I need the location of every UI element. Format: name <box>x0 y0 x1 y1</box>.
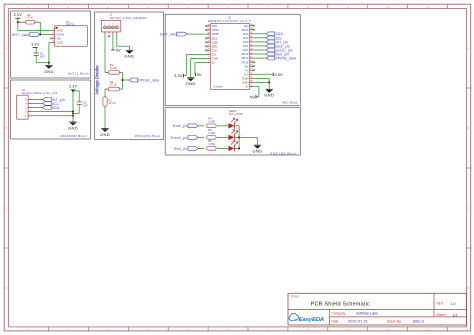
wire Blue_pin to R4 <box>198 125 204 127</box>
wire U1 to Blue_pin <box>253 45 266 47</box>
power flag 3.3V (top left) <box>13 13 22 18</box>
svg-text:EasyEDA: EasyEDA <box>299 317 325 323</box>
svg-text:Voltage Divider: Voltage Divider <box>95 65 100 95</box>
svg-text:Green_pin: Green_pin <box>170 136 188 140</box>
block name PPD42NS Block <box>135 134 161 138</box>
wire U1 to INT_pin <box>253 41 266 43</box>
net flag SDA (MCU) <box>266 32 283 36</box>
wire C1 to ground rail <box>36 56 49 63</box>
wire pin1 to ground rail <box>31 115 73 117</box>
wire junction to C2 <box>73 91 79 102</box>
ground (RGB LED block) <box>252 145 262 153</box>
led LED1 element Red_pin <box>225 141 237 152</box>
net flag INT_pin (MCU) <box>266 40 288 44</box>
wire 3.3V down to VDD rail <box>18 22 52 30</box>
wire 3.3V down <box>72 90 74 112</box>
pin number 1 common <box>241 135 243 137</box>
wire R6 to LED <box>217 147 228 149</box>
net flag Green_pin (MCU) <box>266 48 293 52</box>
svg-text:1uF: 1uF <box>40 55 45 59</box>
wire R3 to ground <box>104 106 106 128</box>
svg-text:3.3V: 3.3V <box>69 85 78 89</box>
svg-text:8 shure: 8 shure <box>214 84 223 88</box>
svg-text:3.3V: 3.3V <box>13 13 22 17</box>
wire U1 5v to 5V flag (left) <box>195 62 207 74</box>
node junction DATA <box>39 33 41 35</box>
wire U1 to Red_pin <box>253 53 266 55</box>
ic U1 WEMOS LOLIN32 V1.0.0 <box>207 15 254 89</box>
node junction PPD42 divider <box>121 79 123 81</box>
wire J1 pin1 down to R1 <box>104 34 106 73</box>
svg-text:PPD42NS Block: PPD42NS Block <box>135 134 161 138</box>
net flag SCL (MCU) <box>266 36 282 40</box>
ground (MCU right) <box>264 89 274 97</box>
wire R2 to DATA line <box>39 22 41 34</box>
net flag PPD42_data <box>129 78 159 82</box>
drawn by field <box>387 319 424 323</box>
node junction pin1 <box>72 115 74 117</box>
svg-text:GND: GND <box>100 132 110 137</box>
wire U1 5v to 5V flag (right) <box>253 86 259 96</box>
wire 3.3V to C1 <box>35 48 37 53</box>
node junction C2 top <box>72 90 74 92</box>
node junction 3.3V rail <box>17 21 19 23</box>
no-connect marks U1 right pins <box>253 25 255 72</box>
svg-text:dotMote Labs: dotMote Labs <box>356 312 378 316</box>
power flag 3.3V (APDS) <box>69 85 78 90</box>
power flag 5V (MCU left) <box>195 72 202 77</box>
wire U1 3v3 to 3.3V flag <box>183 54 206 75</box>
wire pin2 to 3.3V rail <box>31 111 73 113</box>
block name DHT11 Block <box>68 71 89 75</box>
node junction common cathode mid <box>238 136 240 138</box>
svg-text:Isfan G: Isfan G <box>413 320 425 324</box>
svg-text:RGB LED Block: RGB LED Block <box>270 151 296 155</box>
wire U2 GND down <box>49 42 52 62</box>
svg-text:Drawn By:: Drawn By: <box>387 319 402 323</box>
svg-text:Date:: Date: <box>332 319 340 323</box>
net flag Green_pin <box>170 136 198 140</box>
wire C2 bottom <box>72 104 79 114</box>
svg-text:GND: GND <box>264 93 274 98</box>
resistor R5 1.05K <box>207 128 216 139</box>
wire down to ground <box>72 112 74 122</box>
wire R1 to R2 <box>121 72 123 89</box>
wire junction to flag <box>122 79 129 81</box>
svg-text:GND: GND <box>68 125 78 130</box>
ground (DHT11 block) <box>44 65 54 73</box>
power flag 3.3V (MCU right) <box>273 72 283 77</box>
net flag DHT_data (MCU) <box>160 32 187 36</box>
net flag INT_pin <box>43 98 65 102</box>
svg-text:10: 10 <box>386 5 390 9</box>
no-connect mark J1 pin2 <box>108 35 110 37</box>
company field <box>332 311 378 315</box>
connector J2 Header-Male-2.54_1x5 <box>17 88 58 119</box>
block name APDS9960 Block <box>59 134 87 138</box>
capacitor C1 1uF <box>34 52 45 59</box>
block name RGB LED Block <box>270 151 296 155</box>
title block frame <box>288 293 467 325</box>
wire R2 to R3 <box>104 89 106 97</box>
svg-text:Header-Male-2.54_1x5: Header-Male-2.54_1x5 <box>22 91 58 95</box>
svg-text:11: 11 <box>426 328 429 332</box>
wire to ground symbol <box>48 63 50 66</box>
wire Green_pin to R5 <box>198 136 204 138</box>
APDS9960 block outline <box>11 80 91 139</box>
svg-text:10: 10 <box>386 328 390 332</box>
power flag 3.3V (above C1) <box>31 43 39 48</box>
MCU block outline <box>165 14 300 105</box>
wire Red_pin to R6 <box>198 147 204 149</box>
svg-text:Blue_pin: Blue_pin <box>173 124 188 128</box>
svg-text:PPD42_data: PPD42_data <box>276 57 297 61</box>
rev field <box>437 302 456 306</box>
svg-text:Company:: Company: <box>332 311 347 315</box>
power flag 5V (MCU bottom) <box>250 94 256 99</box>
svg-text:5V: 5V <box>250 94 255 99</box>
svg-text:GND: GND <box>186 81 196 86</box>
title text <box>291 294 371 307</box>
svg-text:MCU Block: MCU Block <box>282 100 298 104</box>
svg-text:4.7K: 4.7K <box>27 16 33 20</box>
wire LED cathode Red_pin <box>235 147 240 149</box>
wire U1 to SDA <box>253 33 266 35</box>
wire common cathode <box>238 126 240 149</box>
svg-text:5mm RGB: 5mm RGB <box>229 112 243 116</box>
svg-text:1.0: 1.0 <box>450 302 455 306</box>
wire U1 to Green_pin <box>253 49 266 51</box>
node junction GND <box>48 62 50 64</box>
date field <box>332 319 369 323</box>
led LED1 5mm RGB labels <box>229 109 243 116</box>
net flag Blue_pin <box>173 124 198 128</box>
svg-text:PPD42_data: PPD42_data <box>139 78 160 82</box>
wire pin3 to SDA <box>31 107 43 109</box>
power flag 3.3V (MCU left) <box>174 73 183 78</box>
svg-text:WEMOS LOLIN32 V1.0.0: WEMOS LOLIN32 V1.0.0 <box>208 19 251 23</box>
svg-text:3.3V: 3.3V <box>31 43 39 47</box>
net flag SCL <box>43 102 59 106</box>
resistor R4 1.05K <box>207 117 216 128</box>
connector J1 JST PH 4-PIN_HEADER <box>101 12 146 33</box>
wire LED cathode Blue_pin <box>235 125 240 127</box>
svg-text:2020-07-21: 2020-07-21 <box>348 320 368 324</box>
wire pin5 to INT_pin <box>31 98 43 100</box>
svg-text:5V: 5V <box>116 48 121 53</box>
svg-text:Red_pin: Red_pin <box>174 147 188 151</box>
label Voltage Divider <box>95 65 100 95</box>
svg-text:B: B <box>468 126 470 130</box>
svg-text:1uF: 1uF <box>83 103 88 107</box>
resistor R3 12.1K <box>103 97 116 107</box>
ground (APDS block) <box>68 122 78 130</box>
wire 3.3V stem <box>17 18 19 22</box>
wire LED cathode Green_pin <box>235 136 240 138</box>
wire DATA to U2 <box>40 33 51 35</box>
svg-text:JST PH, 4-PIN_HEADER: JST PH, 4-PIN_HEADER <box>109 16 147 20</box>
net flag Red_pin <box>174 147 198 151</box>
resistor R6 1.05K <box>207 139 216 150</box>
DHT11 block outline <box>11 11 91 78</box>
net flag Blue_pin (MCU) <box>266 44 290 48</box>
wire R4 to LED <box>217 125 228 127</box>
wire U1 3v3 to 3.3V flag (right) <box>253 73 273 75</box>
no-connect mark on NC pin <box>50 37 52 39</box>
svg-text:1.05K: 1.05K <box>208 131 215 135</box>
node junction common cathode bottom <box>238 147 240 149</box>
svg-text:DHT11: DHT11 <box>66 22 75 26</box>
svg-text:GND: GND <box>252 149 262 154</box>
wire common to ground <box>239 137 257 145</box>
wire U1 to PPD42_data <box>253 57 266 59</box>
ground (PPD42NS block) <box>100 129 110 137</box>
svg-text:3.3V: 3.3V <box>274 72 283 77</box>
wire U1 to SCL <box>253 37 266 39</box>
svg-text:GND: GND <box>57 41 65 45</box>
svg-text:1.05K: 1.05K <box>208 142 215 146</box>
wire 3.3V to R2 <box>18 21 21 23</box>
net flag DHT_data <box>12 33 40 37</box>
no-connect marks U1 left pins <box>205 25 207 52</box>
svg-text:DHT_data: DHT_data <box>160 33 177 37</box>
resistor R2 12.1K (divider) <box>105 80 122 91</box>
svg-text:TITLE:: TITLE: <box>291 294 300 298</box>
svg-text:12.1K: 12.1K <box>108 101 115 105</box>
svg-text:1/1: 1/1 <box>453 313 458 317</box>
svg-text:B: B <box>5 126 7 130</box>
wire DHT_data to U1 <box>187 33 207 35</box>
wire U1 GND pins join (right) <box>253 78 269 82</box>
block name MCU Block <box>282 100 298 104</box>
ic U2 DHT11 <box>52 20 88 47</box>
PPD42NS block outline <box>95 12 164 140</box>
wire R5 to LED <box>217 136 228 138</box>
svg-text:3.3V: 3.3V <box>174 73 183 78</box>
svg-text:11: 11 <box>426 5 429 9</box>
svg-text:A: A <box>5 46 7 50</box>
RGB LED block outline <box>165 108 300 155</box>
svg-text:DHT_data: DHT_data <box>12 33 29 37</box>
svg-text:SDA: SDA <box>52 106 60 110</box>
node junction pin2 <box>72 111 74 113</box>
resistor R2 4.7K <box>18 13 40 24</box>
svg-text:1.05K: 1.05K <box>208 119 215 123</box>
ground (JST) <box>124 50 134 58</box>
svg-text:12.1K: 12.1K <box>110 83 117 87</box>
svg-text:Sheet:: Sheet: <box>437 313 446 317</box>
sheet field <box>437 313 458 317</box>
wire pin4 to SCL <box>31 102 43 104</box>
net flag Red_pin (MCU) <box>266 52 289 56</box>
svg-text:DHT11 Block: DHT11 Block <box>68 71 89 75</box>
svg-text:GND: GND <box>124 54 134 59</box>
net flag SDA <box>43 106 60 110</box>
svg-text:REV:: REV: <box>437 302 444 306</box>
wire U1 GND to ground (left) <box>191 58 207 77</box>
svg-text:12.1K: 12.1K <box>110 66 117 70</box>
svg-text:PCB Shield Schematic: PCB Shield Schematic <box>311 302 370 308</box>
svg-text:A: A <box>468 46 470 50</box>
svg-text:5V: 5V <box>197 72 202 77</box>
resistor R1 12.1K <box>105 63 122 74</box>
ground (MCU left) <box>186 78 196 86</box>
wire to ground (MCU right) <box>268 82 270 89</box>
EasyEDA logo <box>289 313 324 323</box>
led LED1 element Blue_pin <box>225 118 237 129</box>
wire J1 pin3 to 5V <box>112 34 114 50</box>
led LED1 element Green_pin <box>225 130 237 141</box>
capacitor C2 1uF <box>77 101 88 108</box>
node junction GND (MCU) <box>268 81 270 83</box>
wire J1 pin4 to ground <box>117 34 130 51</box>
svg-text:GND: GND <box>44 69 54 74</box>
power flag 5V (JST) <box>111 48 121 53</box>
svg-text:APDS9960 Block: APDS9960 Block <box>59 134 87 138</box>
net flag PPD42_data (MCU) <box>266 56 296 60</box>
